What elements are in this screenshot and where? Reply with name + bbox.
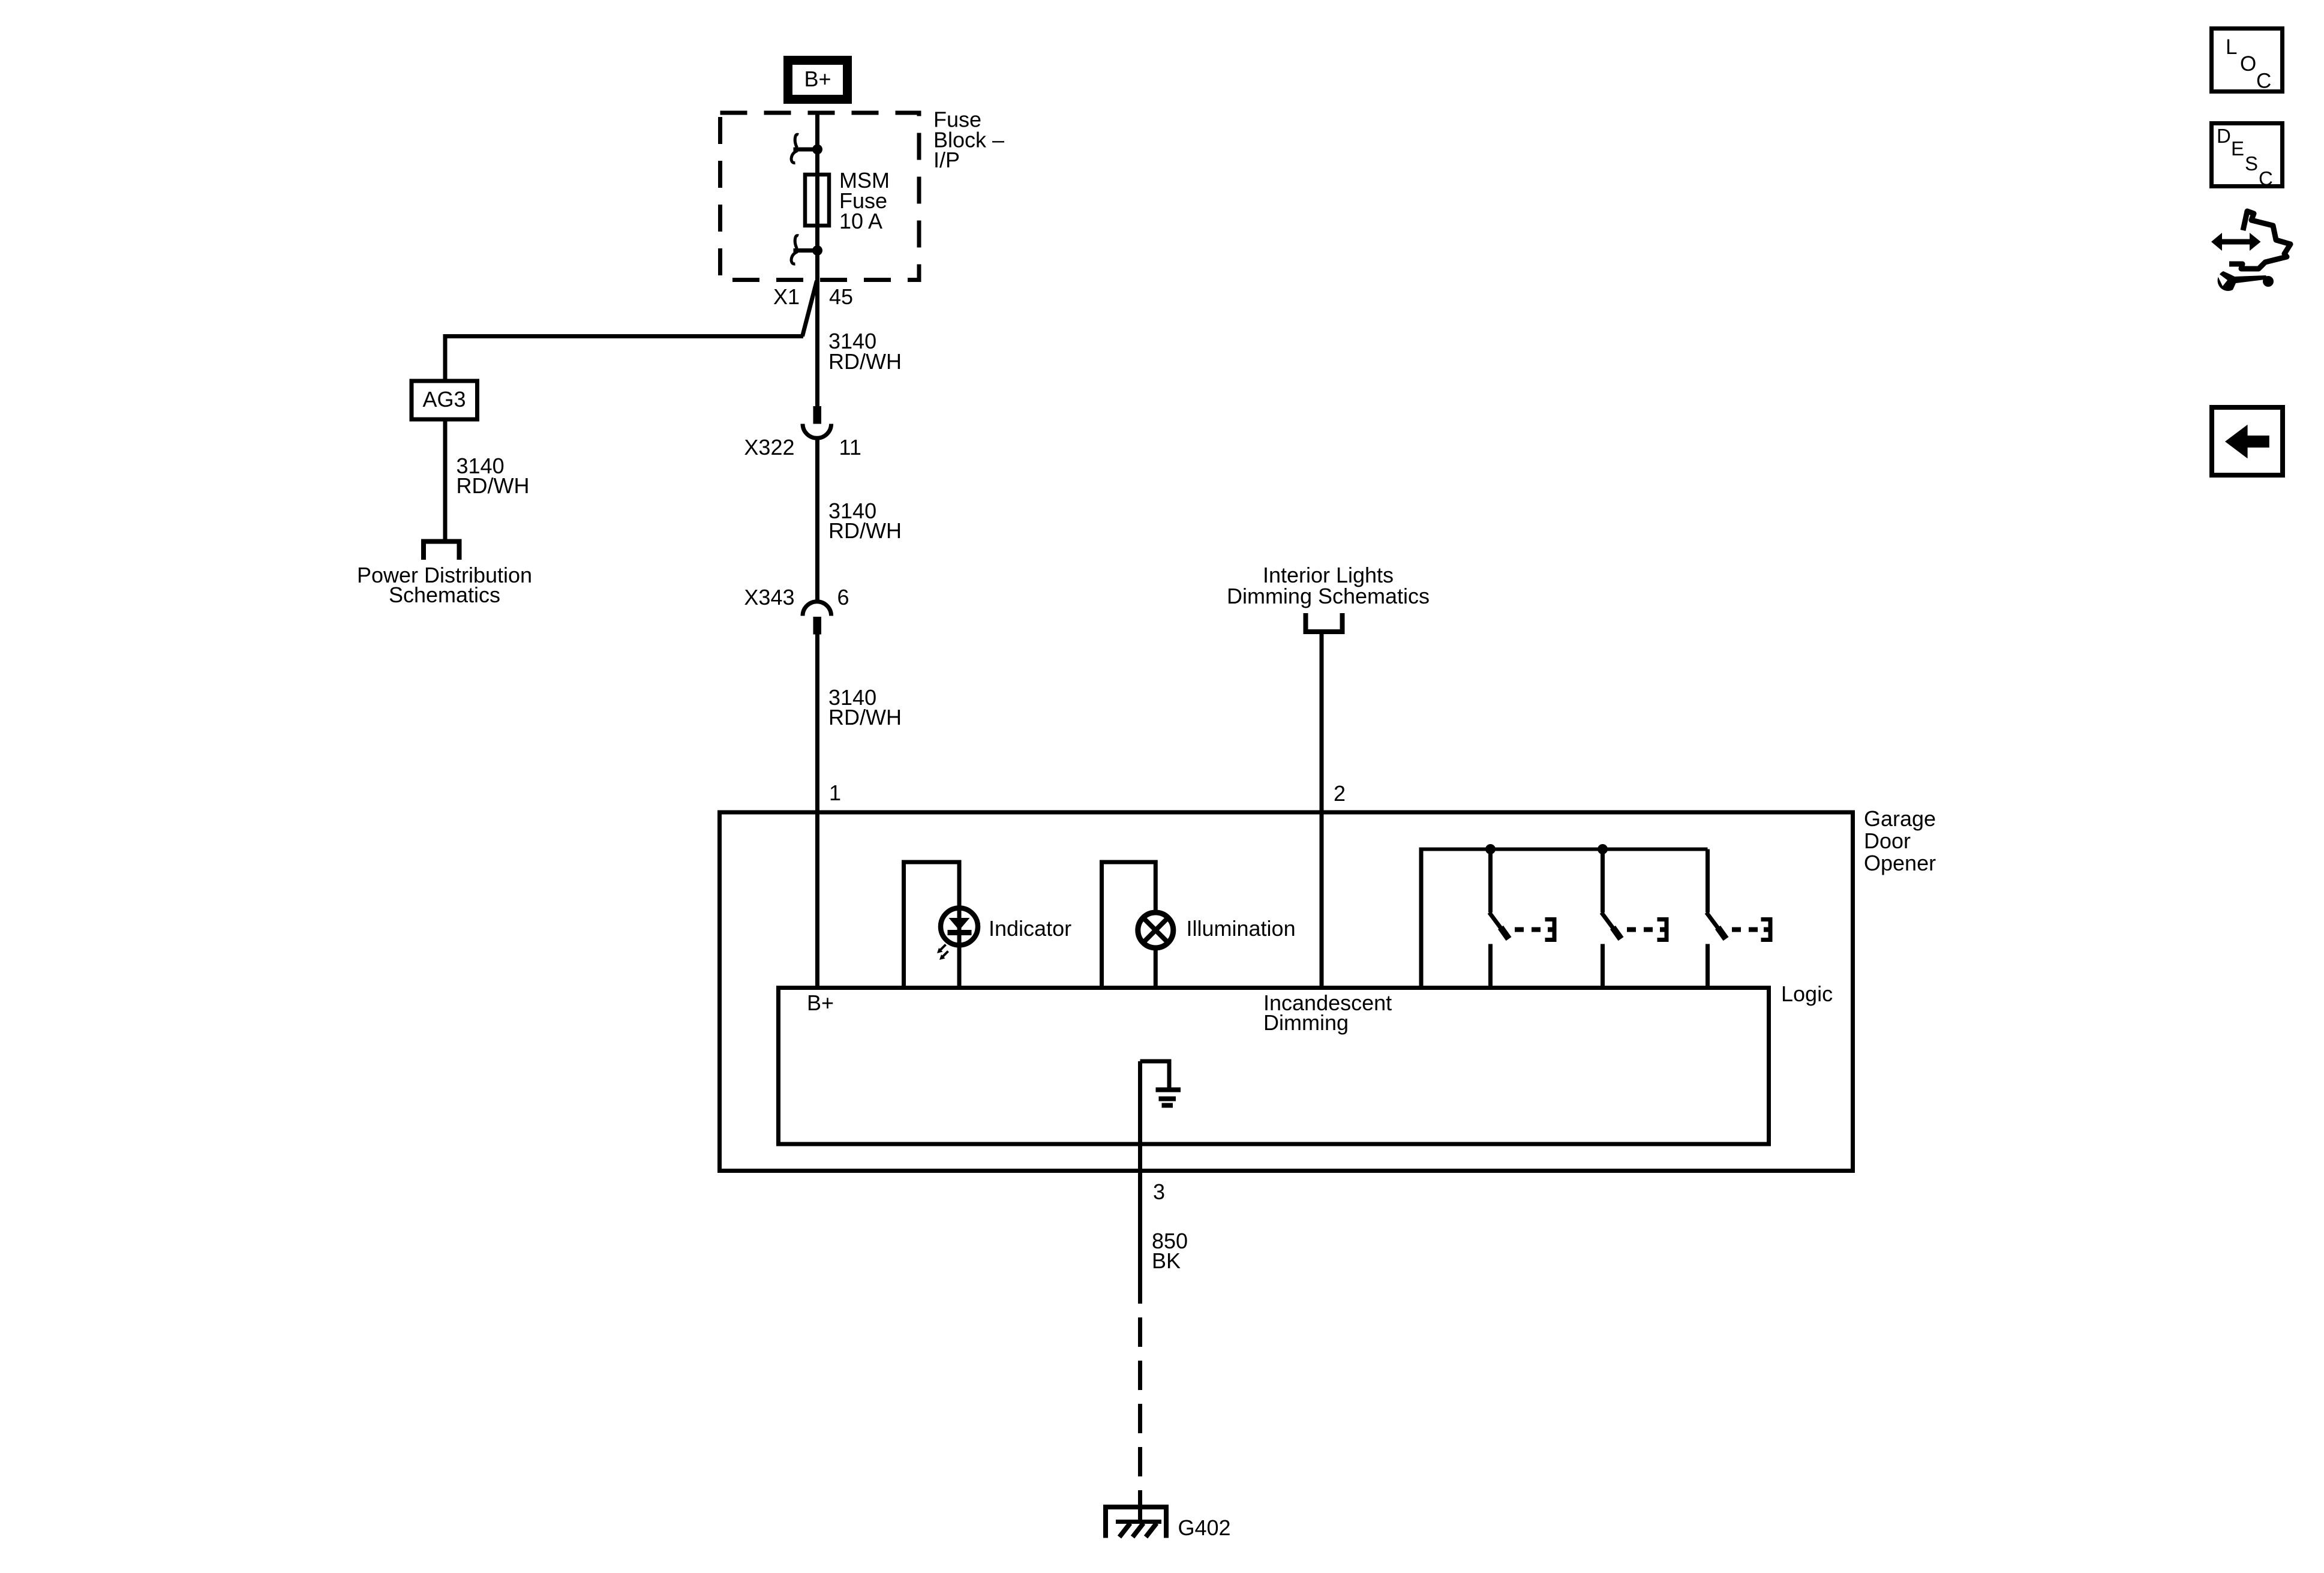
ground G402 [1106, 1507, 1166, 1538]
svg-text:C: C [2256, 70, 2271, 93]
svg-text:AG3: AG3 [422, 387, 466, 412]
switch S3 [1707, 849, 1771, 988]
svg-text:Logic: Logic [1781, 981, 1833, 1006]
wire splice diagonal at X1 [803, 281, 817, 337]
svg-text:6: 6 [837, 585, 849, 610]
off-page connector AG3 [412, 381, 478, 419]
svg-text:S: S [2245, 152, 2258, 175]
svg-text:G402: G402 [1178, 1515, 1231, 1540]
off-page pointer bracket (Power Distribution) [424, 542, 460, 560]
wire logic to switch bus [1419, 849, 1424, 988]
fuse MSM [805, 175, 829, 226]
ground (logic internal) [1140, 1061, 1181, 1106]
fuse block housing (dashed) [720, 113, 920, 280]
lamp illumination [1138, 912, 1173, 948]
svg-text:E: E [2231, 137, 2244, 160]
switch S2 [1602, 849, 1667, 988]
svg-text:B+: B+ [807, 990, 834, 1015]
svg-text:1: 1 [829, 781, 841, 805]
icon box DESC [2212, 124, 2283, 190]
svg-text:MSMFuse10 A: MSMFuse10 A [839, 168, 890, 233]
svg-text:45: 45 [829, 284, 853, 309]
svg-text:11: 11 [839, 435, 861, 460]
junction dot (switch 1) [1485, 844, 1496, 854]
dashed wire to G402 [1138, 1317, 1142, 1521]
junction dot (switch 2) [1598, 844, 1608, 854]
switch bus wire [1419, 848, 1708, 851]
svg-text:X343: X343 [744, 585, 794, 610]
svg-text:L: L [2226, 35, 2237, 59]
icon box LOC [2212, 29, 2283, 93]
Logic box [779, 988, 1769, 1145]
wire branch to AG3 [445, 337, 803, 383]
svg-text:X322: X322 [744, 435, 794, 460]
in-line connector X343 [803, 602, 831, 635]
wire Interior Lights to GDO pin 2 [1320, 632, 1324, 988]
power symbol B+ [788, 61, 848, 100]
wire X322 to X343 [815, 437, 819, 601]
svg-text:C: C [2259, 167, 2273, 190]
wire illumination loop [1102, 862, 1156, 988]
svg-text:D: D [2217, 125, 2231, 147]
wire indicator loop [904, 862, 960, 988]
off-page pointer bracket (Interior Lights) [1306, 613, 1343, 632]
svg-text:2: 2 [1334, 781, 1346, 806]
svg-text:X1: X1 [773, 284, 800, 309]
fuse clip bottom [791, 236, 822, 264]
svg-text:Indicator: Indicator [989, 916, 1071, 941]
wire: B+ feed through fuse block [815, 112, 819, 407]
icon back arrow box [2212, 407, 2283, 475]
wire X343 to GDO pin 1 [815, 635, 819, 988]
fuse clip top [791, 134, 822, 163]
switch S1 [1490, 849, 1555, 988]
svg-text:Illumination: Illumination [1187, 916, 1296, 941]
svg-text:O: O [2240, 52, 2256, 76]
wire ground to pin 3 (850 BK) [1138, 1061, 1142, 1304]
wire AG3 to Power Distribution [443, 419, 448, 540]
svg-text:B+: B+ [804, 67, 831, 91]
in-line connector X322 [803, 406, 831, 438]
svg-text:3: 3 [1153, 1179, 1165, 1204]
LED indicator [937, 908, 978, 960]
Garage Door Opener box [720, 812, 1853, 1171]
icon service info (double arrow, connector, wrench) [2211, 211, 2290, 291]
